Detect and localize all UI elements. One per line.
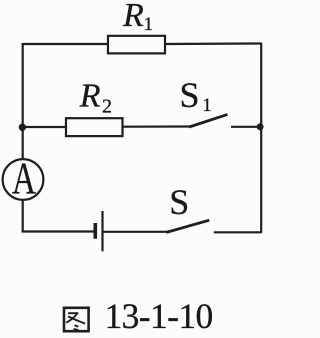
ammeter A1 letter [12, 152, 36, 204]
wire R2 to switch S1 [123, 125, 190, 127]
svg-text:1: 1 [202, 95, 212, 116]
caption character tu (figure) [64, 308, 89, 331]
svg-text:1: 1 [144, 14, 154, 35]
resistor R2 [66, 118, 123, 136]
svg-text:2: 2 [102, 95, 112, 117]
switch S1 lever [189, 114, 227, 127]
wire switch S to corner [214, 231, 262, 233]
battery negative short plate [94, 223, 98, 239]
wire right vertical [260, 43, 262, 233]
svg-text:S: S [180, 75, 200, 115]
wire battery to switch S [104, 231, 168, 233]
svg-text:A: A [12, 152, 36, 204]
svg-text:R: R [122, 0, 144, 34]
switch S lever [166, 220, 209, 232]
wire bottom-left horizontal [22, 230, 94, 232]
wire left vertical upper [22, 43, 24, 160]
wire middle branch left [23, 126, 67, 128]
node junction right [257, 123, 264, 130]
node junction left [19, 124, 26, 131]
svg-text:S: S [169, 182, 189, 222]
wire left vertical lower [22, 200, 24, 233]
wire top-right horizontal [165, 42, 261, 45]
wire top-left horizontal [23, 43, 108, 45]
battery positive long plate [101, 211, 103, 251]
resistor R1 [108, 36, 165, 54]
svg-text:R: R [79, 77, 101, 114]
svg-text:13-1-10: 13-1-10 [105, 296, 213, 336]
ammeter A1 circle [3, 159, 44, 200]
wire switch S1 to node [231, 126, 260, 128]
